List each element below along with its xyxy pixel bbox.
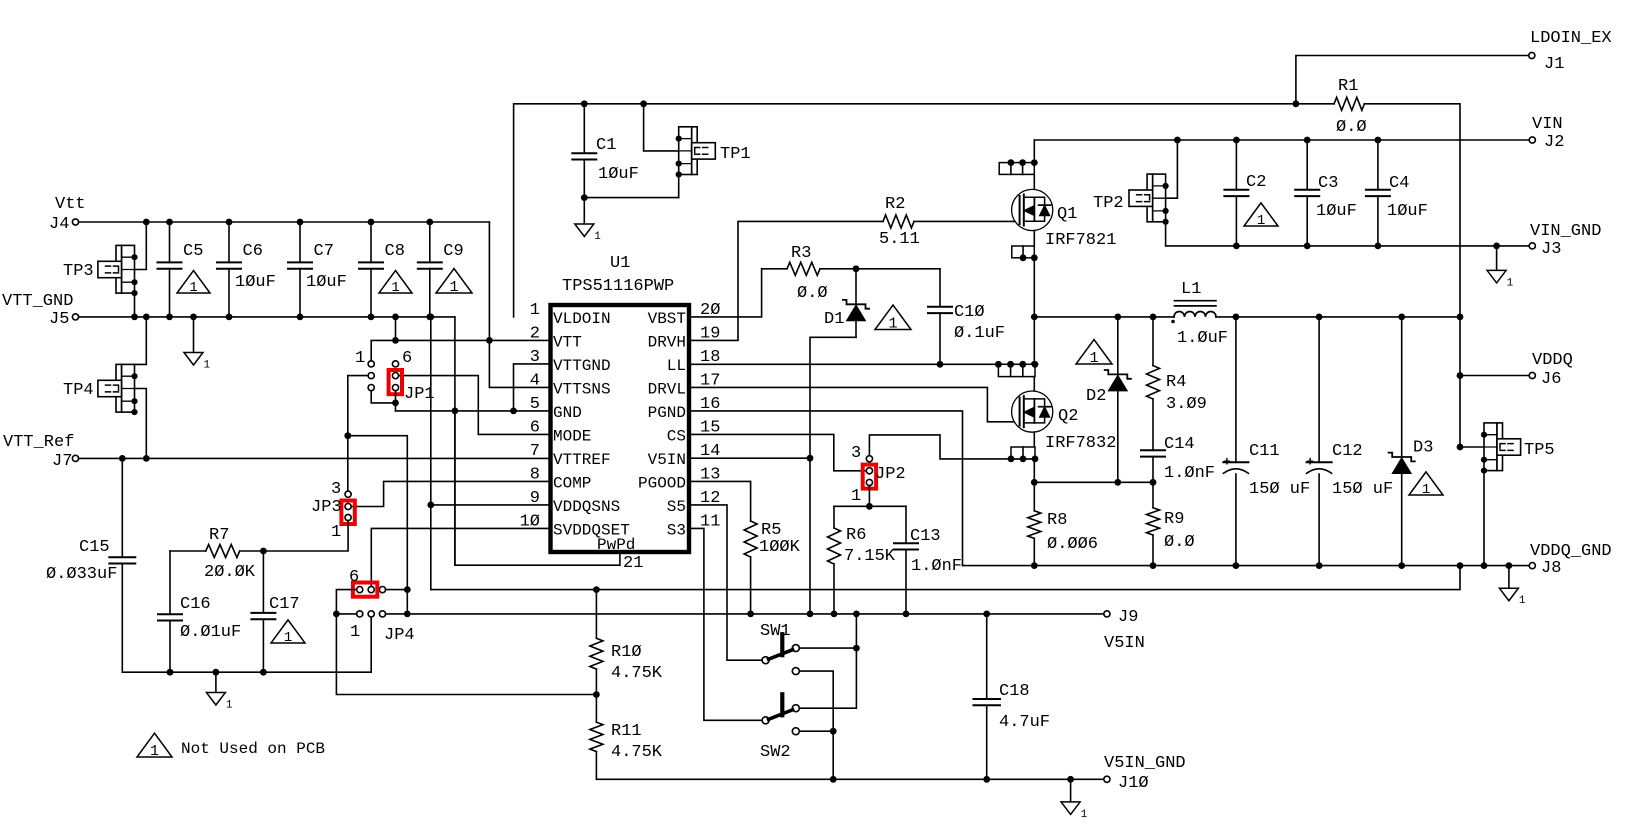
- svg-text:R4: R4: [1166, 373, 1186, 392]
- svg-text:CS: CS: [667, 427, 686, 445]
- pin 6 label MODE: [530, 418, 592, 445]
- pin 15 label CS: [667, 418, 721, 445]
- wire JP4 left pins: [333, 590, 357, 618]
- pin 13 label PGOOD: [638, 465, 720, 492]
- jumper JP1: [355, 349, 435, 404]
- wire LDOIN top rail: [514, 104, 1335, 317]
- svg-text:1ØuF: 1ØuF: [306, 273, 347, 292]
- wire MODE pin 6 to JP1: [399, 376, 551, 435]
- svg-text:1: 1: [1507, 277, 1514, 289]
- wire TP5 ground chain: [1483, 471, 1485, 566]
- capacitor C14: [1141, 435, 1215, 508]
- svg-text:1: 1: [150, 744, 159, 760]
- pin 7 label VTTREF: [530, 442, 611, 469]
- svg-text:VBST: VBST: [648, 310, 686, 328]
- op-amp U1 TPS51116PWP body: [551, 254, 690, 554]
- capacitor C6: [217, 219, 276, 321]
- svg-text:1: 1: [1089, 349, 1098, 367]
- svg-text:+: +: [1223, 454, 1231, 469]
- svg-text:J8: J8: [1541, 559, 1561, 578]
- svg-text:1: 1: [888, 315, 897, 333]
- wire TP1 probe drop: [640, 100, 679, 150]
- svg-text:TP3: TP3: [63, 262, 94, 281]
- svg-text:1ØuF: 1ØuF: [235, 273, 276, 292]
- pin 18 label LL: [667, 348, 721, 375]
- wire DRVL pin17 to Q2 gate: [689, 387, 1019, 421]
- svg-text:VLDOIN: VLDOIN: [553, 310, 611, 328]
- svg-text:J1: J1: [1544, 55, 1564, 74]
- svg-text:R8: R8: [1047, 511, 1067, 530]
- svg-text:JP4: JP4: [384, 626, 415, 645]
- svg-text:1: 1: [189, 280, 197, 296]
- svg-text:TP5: TP5: [1524, 441, 1555, 460]
- svg-text:C18: C18: [999, 682, 1030, 701]
- wire VDDQSNS pin 9: [427, 502, 550, 509]
- wire SVDDQSET pin 10 to JP4: [371, 528, 550, 586]
- svg-text:1: 1: [530, 301, 540, 320]
- svg-text:R2: R2: [885, 195, 905, 214]
- pin 21 PwPd stub: [452, 408, 644, 574]
- svg-text:1: 1: [204, 360, 211, 372]
- wire R2 to Q1 gate: [914, 220, 1019, 222]
- wire GND pin 5: [396, 410, 551, 412]
- transistor Q1 IRF7821: [1012, 189, 1117, 250]
- wire JP1 pins to GND: [371, 391, 399, 411]
- svg-text:3: 3: [331, 480, 341, 499]
- svg-text:DRVL: DRVL: [648, 380, 686, 398]
- svg-text:R3: R3: [791, 244, 811, 263]
- wire VDDQ_GND rail: [963, 562, 1530, 569]
- wire JP3 pin1 to R7/C17 node: [263, 521, 348, 551]
- wire JP1 pin6 jog: [371, 340, 395, 360]
- svg-text:D2: D2: [1086, 387, 1106, 406]
- svg-text:J7: J7: [52, 452, 72, 471]
- svg-text:MODE: MODE: [553, 427, 591, 445]
- wire TP5 probe: [1457, 444, 1484, 451]
- not-used triangle for C5: [177, 271, 210, 296]
- svg-text:V5IN: V5IN: [1104, 634, 1145, 653]
- svg-text:S3: S3: [667, 521, 686, 539]
- transistor Q1 source pins: [1012, 246, 1038, 261]
- svg-text:IRF7821: IRF7821: [1045, 231, 1116, 250]
- svg-text:TP2: TP2: [1093, 194, 1124, 213]
- capacitor C11 polarized: [1223, 317, 1310, 566]
- not-used triangle for C2: [1244, 203, 1278, 229]
- svg-text:C12: C12: [1332, 442, 1363, 461]
- test point TP4: [63, 364, 138, 415]
- wire TP3 ground pins to J5: [131, 293, 138, 321]
- capacitor C8: [359, 219, 405, 321]
- transistor Q2 drain pins: [995, 361, 1038, 377]
- svg-text:Vtt: Vtt: [55, 195, 86, 214]
- svg-text:4.7uF: 4.7uF: [999, 713, 1050, 732]
- svg-text:R7: R7: [209, 526, 229, 545]
- svg-text:V5IN: V5IN: [648, 451, 686, 469]
- svg-text:SW1: SW1: [760, 622, 791, 641]
- svg-text:U1: U1: [610, 254, 630, 273]
- wire JP1 mode-select to JP3: [344, 376, 368, 492]
- pin 17 label DRVL: [648, 371, 721, 398]
- svg-text:VTT: VTT: [553, 333, 582, 351]
- resistor R8: [1028, 511, 1098, 566]
- ground below C1: [575, 198, 602, 243]
- svg-text:TP1: TP1: [720, 145, 751, 164]
- wire Q1 drain to circle: [1033, 174, 1035, 190]
- inductor L1: [1171, 280, 1228, 348]
- svg-text:C1Ø: C1Ø: [954, 303, 985, 322]
- svg-text:C2: C2: [1246, 173, 1266, 192]
- svg-text:J3: J3: [1541, 240, 1561, 259]
- svg-text:1ØuF: 1ØuF: [1387, 202, 1428, 221]
- svg-text:1ØuF: 1ØuF: [598, 165, 639, 184]
- svg-text:SVDDQSET: SVDDQSET: [553, 521, 630, 539]
- pin 4 label VTTSNS: [530, 371, 611, 398]
- svg-text:C13: C13: [910, 527, 941, 546]
- wire VBST pin20 to R3: [689, 269, 787, 317]
- svg-text:Not Used on PCB: Not Used on PCB: [181, 740, 325, 758]
- svg-text:Ø.Ø1uF: Ø.Ø1uF: [180, 623, 241, 642]
- wire TP2 probe to VIN: [1166, 140, 1178, 198]
- svg-text:C4: C4: [1389, 174, 1409, 193]
- svg-text:6: 6: [349, 568, 359, 587]
- svg-text:1: 1: [331, 523, 341, 542]
- wire VTTREF J7 to U1 pin 7: [79, 457, 549, 459]
- svg-text:1: 1: [449, 278, 458, 296]
- wire JP4 to R10/R11 divider: [336, 614, 599, 698]
- svg-text:R11: R11: [611, 722, 642, 741]
- svg-text:SW2: SW2: [760, 743, 791, 762]
- svg-text:C17: C17: [269, 595, 300, 614]
- resistor R5 PGOOD pulldown: [689, 481, 801, 614]
- capacitor C12 polarized: [1306, 317, 1393, 566]
- capacitor C15: [46, 455, 135, 672]
- connector J2 VIN: [1529, 115, 1564, 152]
- wire JP2 pin1 node: [834, 486, 906, 510]
- connector J6 VDDQ: [1529, 351, 1573, 389]
- wire analog ground rail: [122, 617, 371, 672]
- wire Vtt drop to VTT pin2 and VTTSNS pin4: [486, 222, 551, 387]
- wire VIN_GND bus: [1236, 243, 1529, 250]
- svg-text:R1Ø: R1Ø: [611, 643, 642, 662]
- pin 14 label V5IN: [648, 442, 721, 469]
- test point TP5: [1481, 423, 1555, 474]
- svg-text:L1: L1: [1181, 280, 1201, 299]
- svg-text:4.75K: 4.75K: [611, 743, 663, 762]
- resistor R6: [828, 506, 896, 614]
- svg-text:2Ø.ØK: 2Ø.ØK: [204, 563, 256, 582]
- svg-text:VDDQ: VDDQ: [1532, 351, 1573, 370]
- pin 9 label VDDQSNS: [530, 489, 620, 516]
- svg-text:1: 1: [350, 623, 360, 642]
- svg-text:V5IN_GND: V5IN_GND: [1104, 754, 1186, 773]
- svg-text:15Ø uF: 15Ø uF: [1249, 480, 1310, 499]
- pin 1 label VLDOIN: [530, 301, 611, 328]
- svg-text:+: +: [1306, 454, 1314, 469]
- not-used triangle for C17: [271, 620, 305, 646]
- pin 16 label PGND: [648, 395, 721, 422]
- wire Vtt bus J4 to U1: [79, 221, 490, 223]
- svg-text:1ØuF: 1ØuF: [1316, 202, 1357, 221]
- svg-text:VTT_GND: VTT_GND: [2, 292, 73, 311]
- svg-text:J9: J9: [1118, 608, 1138, 627]
- svg-text:R1: R1: [1338, 77, 1358, 96]
- legend text: [181, 740, 325, 758]
- svg-text:C16: C16: [180, 595, 211, 614]
- not-used triangle at D1: [875, 305, 911, 332]
- svg-text:C1: C1: [596, 136, 616, 155]
- svg-text:R9: R9: [1164, 510, 1184, 529]
- ground at J5 rail: [184, 314, 211, 372]
- svg-text:1ØØK: 1ØØK: [759, 538, 801, 557]
- connector J3 VIN_GND: [1529, 222, 1601, 259]
- jumper JP3: [311, 480, 355, 542]
- svg-text:Ø.ØØ6: Ø.ØØ6: [1047, 535, 1098, 554]
- svg-text:JP2: JP2: [875, 465, 906, 484]
- capacitor C3: [1295, 140, 1357, 249]
- connector J1 LDOIN_EX: [1529, 29, 1612, 74]
- wire D1 anode to V5IN: [807, 337, 856, 614]
- svg-text:Ø.Ø: Ø.Ø: [797, 284, 828, 303]
- svg-text:PGND: PGND: [648, 404, 686, 422]
- connector J8 VDDQ_GND: [1529, 542, 1611, 578]
- wire J5 to JP1 top: [392, 314, 399, 341]
- svg-text:1: 1: [355, 349, 365, 368]
- svg-text:C11: C11: [1249, 442, 1280, 461]
- pin 19 label DRVH: [648, 324, 721, 351]
- pin 11 label S3: [667, 512, 721, 539]
- svg-text:1.ØnF: 1.ØnF: [911, 557, 962, 576]
- svg-text:VDDQSNS: VDDQSNS: [553, 498, 620, 516]
- svg-text:5.11: 5.11: [879, 230, 920, 249]
- resistor R2: [879, 195, 920, 249]
- ground at J10: [1061, 779, 1088, 821]
- svg-text:1: 1: [391, 280, 399, 296]
- svg-text:7.15K: 7.15K: [844, 547, 896, 566]
- pin 20 label VBST: [648, 301, 721, 328]
- svg-text:1: 1: [226, 700, 233, 712]
- svg-text:J4: J4: [49, 215, 69, 234]
- wire ground rail mid: [431, 562, 1464, 593]
- capacitor C9: [418, 219, 464, 321]
- wire LL pin18: [689, 363, 1035, 365]
- svg-text:JP3: JP3: [311, 498, 342, 517]
- wire PGND pin16 drop: [689, 411, 963, 566]
- svg-text:D3: D3: [1413, 439, 1433, 458]
- ground at J3: [1487, 246, 1514, 290]
- pin 5 label GND: [530, 395, 582, 422]
- wire VIN bus: [1034, 137, 1529, 144]
- wire VTTGND pin 3 to GND: [510, 364, 550, 414]
- wire J1 drop: [1293, 56, 1529, 108]
- node Vtt / connector J4: [49, 195, 86, 234]
- test point TP1: [676, 127, 751, 178]
- svg-text:1.ØnF: 1.ØnF: [1164, 464, 1215, 483]
- svg-text:VTT_Ref: VTT_Ref: [3, 433, 74, 452]
- svg-text:21: 21: [623, 554, 643, 573]
- capacitor C18: [973, 614, 1050, 779]
- svg-text:J6: J6: [1541, 370, 1561, 389]
- wire VDDQ node: [1034, 316, 1174, 318]
- wire Q1 source: [1033, 231, 1035, 247]
- svg-text:1.ØuF: 1.ØuF: [1177, 329, 1228, 348]
- svg-text:R6: R6: [846, 526, 866, 545]
- svg-text:7: 7: [530, 442, 540, 461]
- wire CS pin15 to JP2: [689, 434, 866, 470]
- wire JP3 node to JP4: [348, 436, 411, 618]
- wire V5IN_GND rail: [833, 776, 1104, 783]
- wire SW1 top contact to V5IN: [799, 614, 860, 708]
- svg-text:VIN_GND: VIN_GND: [1530, 222, 1601, 241]
- wire JP2 pin3 to Q2 source sense: [869, 435, 1035, 459]
- resistor R10: [590, 590, 663, 695]
- wire VTT pin 2: [392, 337, 550, 344]
- svg-text:1: 1: [284, 630, 293, 646]
- svg-text:1: 1: [594, 231, 601, 243]
- svg-text:3.Ø9: 3.Ø9: [1166, 395, 1207, 414]
- wire TP3 probe to Vtt: [135, 219, 150, 270]
- svg-text:Q1: Q1: [1057, 205, 1077, 224]
- not-used triangle at D2: [1076, 340, 1112, 367]
- resistor R1: [1334, 77, 1367, 137]
- wire S5 pin12 to SW1: [689, 505, 762, 660]
- pin 2 label VTT: [530, 324, 582, 351]
- wire TP2 ground chain: [1166, 222, 1237, 246]
- wire C1 bottom to TP1: [581, 194, 679, 201]
- svg-text:GND: GND: [553, 404, 582, 422]
- pin 10 label SVDDQSET: [520, 512, 630, 539]
- wire Q2 source to R8: [1031, 459, 1038, 511]
- svg-text:C9: C9: [443, 242, 463, 261]
- connector J5 VTT_GND: [2, 292, 79, 329]
- svg-text:1: 1: [1422, 482, 1431, 498]
- wire TP1 ground chain: [678, 175, 680, 198]
- wire J5 corner drop: [454, 317, 456, 565]
- svg-text:C7: C7: [314, 242, 334, 261]
- capacitor C13: [894, 506, 962, 614]
- connector J9: [1104, 608, 1145, 653]
- capacitor C2: [1224, 140, 1266, 249]
- pin 8 label COMP: [530, 465, 592, 492]
- wire SW2 bottom contact: [799, 730, 833, 732]
- svg-text:4.75K: 4.75K: [611, 664, 663, 683]
- svg-text:COMP: COMP: [553, 474, 591, 492]
- diode D1 zener: [824, 269, 869, 338]
- svg-text:1: 1: [1519, 595, 1526, 607]
- svg-text:6: 6: [402, 349, 412, 368]
- wire Q1 drain from VIN: [1033, 140, 1035, 163]
- wire COMP pin 8 to JP3: [351, 481, 550, 506]
- wire DRVH pin19 to R2: [689, 221, 883, 340]
- capacitor C1: [572, 100, 639, 197]
- transistor Q1 drain pins: [999, 159, 1038, 174]
- svg-text:VTTGND: VTTGND: [553, 357, 611, 375]
- svg-text:Ø.1uF: Ø.1uF: [954, 324, 1005, 343]
- svg-text:Q2: Q2: [1058, 407, 1078, 426]
- svg-text:IRF7832: IRF7832: [1045, 434, 1116, 453]
- svg-text:J2: J2: [1544, 133, 1564, 152]
- test point TP2: [1093, 174, 1169, 225]
- wire switch node rail: [1031, 258, 1038, 368]
- wire JP4 top-right: [386, 589, 408, 591]
- wire current sense node: [1034, 479, 1156, 486]
- ground on C16 rail: [206, 669, 233, 712]
- capacitor C5: [158, 219, 204, 321]
- svg-text:Ø.Ø: Ø.Ø: [1336, 118, 1367, 137]
- svg-text:VTTREF: VTTREF: [553, 451, 611, 469]
- wire R3 to C10: [820, 265, 940, 272]
- svg-text:J5: J5: [49, 310, 69, 329]
- svg-text:C14: C14: [1164, 435, 1195, 454]
- svg-text:C8: C8: [385, 242, 405, 261]
- not-used triangle at D3: [1409, 472, 1443, 498]
- wire V5IN pin14: [689, 457, 810, 459]
- wire C9 ground drop: [427, 314, 434, 590]
- test point TP3: [63, 245, 138, 296]
- svg-text:PGOOD: PGOOD: [638, 474, 686, 492]
- svg-text:Ø.Ø33uF: Ø.Ø33uF: [46, 565, 117, 584]
- not-used triangle for C9: [436, 269, 472, 296]
- svg-text:C3: C3: [1318, 174, 1338, 193]
- wire TP4 probe to VTT_Ref: [135, 389, 150, 462]
- svg-text:S5: S5: [667, 498, 686, 516]
- wire Q2 drain to circle: [1033, 377, 1035, 391]
- capacitor C16: [158, 551, 241, 676]
- svg-text:C15: C15: [79, 538, 110, 557]
- svg-text:VIN: VIN: [1532, 115, 1563, 134]
- wire VTT_GND bus J5: [79, 316, 455, 318]
- resistor R7: [170, 526, 267, 582]
- resistor R11: [590, 695, 833, 780]
- legend not-used triangle: [137, 733, 172, 760]
- svg-text:J1Ø: J1Ø: [1118, 774, 1149, 793]
- resistor R9: [1147, 508, 1195, 566]
- jumper JP4: [349, 568, 415, 645]
- switch SW1: [760, 622, 799, 675]
- transistor Q2 source pins: [1008, 447, 1039, 462]
- switch SW2: [760, 694, 799, 762]
- wire VDDQ to J6: [1460, 375, 1529, 377]
- diode D3 zener: [1389, 317, 1434, 566]
- wire J5 to TP4 top pin: [135, 314, 150, 365]
- svg-text:1: 1: [1081, 809, 1088, 821]
- transistor Q2 IRF7832: [1012, 391, 1117, 453]
- capacitor C7: [288, 219, 347, 321]
- svg-text:TP4: TP4: [63, 381, 94, 400]
- wire VDDQ bus: [1114, 314, 1460, 321]
- pin 3 label VTTGND: [530, 348, 611, 375]
- svg-text:C5: C5: [183, 242, 203, 261]
- svg-text:TPS51116PWP: TPS51116PWP: [562, 277, 674, 296]
- svg-text:C6: C6: [243, 242, 263, 261]
- capacitor C17: [251, 551, 299, 676]
- wire Q2 source: [1033, 432, 1035, 447]
- svg-text:1: 1: [1257, 213, 1266, 229]
- wire R1 to VDDQ: [1364, 104, 1463, 447]
- svg-text:DRVH: DRVH: [648, 333, 686, 351]
- resistor R4: [1147, 317, 1207, 450]
- ground at J8: [1499, 566, 1526, 608]
- not-used triangle for C8: [379, 271, 412, 296]
- svg-text:15Ø uF: 15Ø uF: [1332, 480, 1393, 499]
- svg-text:VTTSNS: VTTSNS: [553, 380, 611, 398]
- resistor R3: [787, 244, 828, 303]
- jumper JP2: [851, 444, 906, 506]
- wire SW1 bottom contact: [799, 671, 836, 783]
- connector J7 VTT_Ref: [3, 433, 79, 471]
- diode D2 zener: [1086, 317, 1131, 482]
- connector J10: [1104, 754, 1186, 793]
- wire S3 pin11 to SW2: [689, 528, 762, 720]
